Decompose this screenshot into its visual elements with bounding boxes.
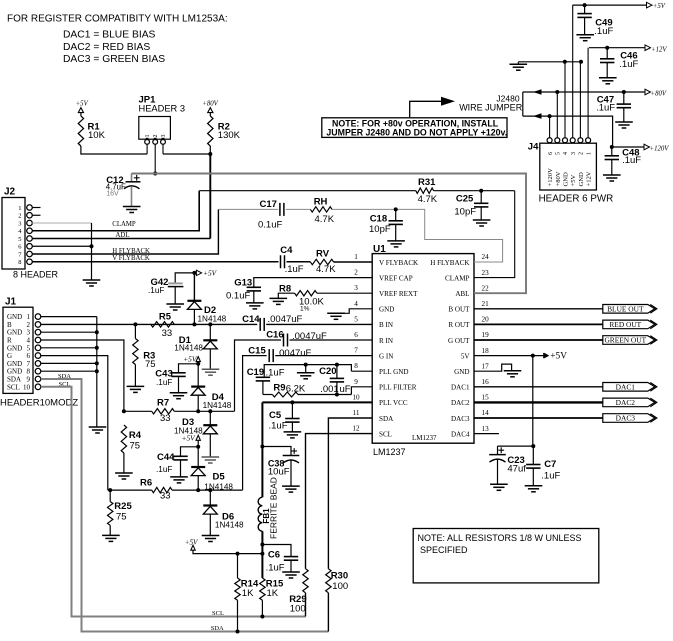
svg-text:33: 33 (160, 413, 171, 424)
svg-text:.1uF: .1uF (619, 59, 638, 70)
svg-text:+80V: +80V (651, 91, 667, 98)
svg-text:+12V: +12V (651, 47, 667, 54)
svg-text:10K: 10K (88, 130, 106, 141)
svg-text:10uF: 10uF (268, 467, 290, 478)
svg-text:3: 3 (571, 152, 577, 155)
svg-text:15: 15 (482, 394, 490, 402)
svg-text:G OUT: G OUT (448, 337, 470, 345)
svg-text:JUMPER J2480 AND DO NOT APPLY: JUMPER J2480 AND DO NOT APPLY +120v. (326, 128, 507, 138)
svg-text:2: 2 (354, 269, 358, 277)
svg-text:SCL: SCL (379, 430, 392, 438)
svg-text:19: 19 (482, 331, 490, 339)
svg-text:R5: R5 (159, 312, 172, 323)
svg-text:+5V: +5V (653, 3, 666, 10)
svg-text:CLAMP: CLAMP (112, 221, 136, 228)
svg-text:17: 17 (482, 362, 490, 370)
svg-text:CLAMP: CLAMP (445, 274, 469, 282)
svg-text:20: 20 (482, 316, 490, 324)
svg-text:J2: J2 (4, 187, 16, 198)
svg-text:SPECIFIED: SPECIFIED (420, 545, 468, 555)
svg-text:R7: R7 (157, 397, 169, 408)
svg-text:1: 1 (354, 253, 358, 261)
svg-text:1N4148: 1N4148 (215, 521, 244, 530)
svg-text:6: 6 (27, 352, 31, 360)
svg-text:.001: .001 (320, 384, 339, 395)
svg-text:12: 12 (352, 425, 360, 433)
svg-text:D5: D5 (213, 471, 226, 482)
svg-text:33: 33 (160, 491, 171, 502)
svg-text:+5V: +5V (182, 434, 197, 443)
svg-text:0.1uF: 0.1uF (226, 291, 250, 302)
svg-text:G IN: G IN (379, 352, 393, 360)
svg-text:SDA: SDA (7, 376, 21, 384)
svg-text:NOTE: ALL RESISTORS 1/8 W UNL: NOTE: ALL RESISTORS 1/8 W UNLESS (418, 533, 582, 543)
svg-text:3: 3 (18, 220, 21, 227)
svg-text:4.7K: 4.7K (316, 264, 336, 275)
svg-text:R25: R25 (114, 501, 132, 512)
svg-text:R6: R6 (140, 477, 152, 488)
svg-text:BLUE OUT: BLUE OUT (607, 304, 644, 313)
svg-text:GREEN OUT: GREEN OUT (604, 336, 646, 345)
svg-text:SCL: SCL (7, 383, 20, 391)
svg-text:.1uF: .1uF (622, 155, 641, 166)
svg-text:PLL VCC: PLL VCC (379, 399, 408, 407)
svg-text:C25: C25 (456, 194, 474, 205)
svg-text:.1uF: .1uF (266, 367, 285, 378)
svg-text:.1uF: .1uF (596, 103, 615, 114)
svg-text:22: 22 (482, 284, 490, 292)
svg-text:DAC1: DAC1 (616, 382, 636, 391)
svg-text:+5V: +5V (550, 352, 567, 362)
svg-text:H FLYBACK: H FLYBACK (430, 259, 470, 267)
svg-text:2: 2 (18, 213, 21, 220)
svg-text:.1uF: .1uF (269, 421, 288, 432)
svg-text:R8: R8 (279, 283, 291, 294)
svg-text:C4: C4 (280, 245, 293, 256)
svg-text:6: 6 (548, 152, 554, 155)
svg-text:21: 21 (482, 300, 490, 308)
svg-text:G13: G13 (234, 277, 252, 288)
svg-text:4.7K: 4.7K (315, 214, 335, 225)
svg-text:FERRITE BEAD: FERRITE BEAD (268, 477, 278, 539)
svg-text:SDA: SDA (379, 415, 394, 423)
svg-text:+5V: +5V (76, 101, 89, 108)
svg-text:HEADER 6 PWR: HEADER 6 PWR (539, 194, 614, 205)
svg-text:1N4148: 1N4148 (203, 401, 232, 410)
svg-text:8: 8 (18, 259, 21, 266)
svg-text:V FLYBACK: V FLYBACK (379, 259, 419, 267)
svg-text:DAC3: DAC3 (451, 415, 470, 423)
svg-text:FOR REGISTER COMPATIBITY WITH: FOR REGISTER COMPATIBITY WITH LM1253A: (7, 13, 228, 24)
svg-text:R9: R9 (273, 383, 285, 394)
svg-text:R31: R31 (418, 177, 436, 188)
svg-text:DAC2: DAC2 (616, 398, 636, 407)
svg-text:+80V: +80V (202, 101, 218, 108)
svg-text:23: 23 (482, 269, 490, 277)
svg-text:R OUT: R OUT (448, 321, 470, 329)
svg-text:1N4148: 1N4148 (198, 314, 227, 323)
svg-text:100: 100 (332, 581, 348, 592)
svg-text:B OUT: B OUT (448, 306, 470, 314)
svg-text:.1uF: .1uF (285, 264, 304, 275)
svg-text:75: 75 (130, 441, 141, 452)
svg-text:C19: C19 (247, 367, 264, 378)
svg-text:2: 2 (27, 321, 31, 329)
svg-text:DAC3 = GREEN BIAS: DAC3 = GREEN BIAS (63, 54, 165, 65)
svg-text:0.1uF: 0.1uF (258, 219, 282, 230)
svg-text:DAC1 = BLUE BIAS: DAC1 = BLUE BIAS (63, 30, 156, 41)
svg-text:16V: 16V (106, 190, 119, 197)
svg-text:.1uF: .1uF (266, 562, 285, 573)
svg-text:7: 7 (354, 347, 358, 355)
svg-text:HEADER10MODZ: HEADER10MODZ (0, 397, 78, 408)
svg-text:6: 6 (354, 331, 358, 339)
svg-text:8: 8 (354, 362, 358, 370)
svg-text:5V: 5V (461, 352, 471, 360)
svg-text:LM1237: LM1237 (373, 447, 406, 457)
svg-text:GND: GND (7, 313, 22, 321)
svg-text:9: 9 (27, 376, 31, 384)
svg-text:DAC1: DAC1 (451, 384, 470, 392)
svg-text:+120V: +120V (547, 168, 554, 187)
svg-text:DAC2: DAC2 (451, 399, 470, 407)
svg-text:+5V: +5V (203, 269, 218, 278)
svg-text:.1uF: .1uF (156, 378, 172, 387)
svg-text:4: 4 (27, 337, 31, 345)
svg-text:GND: GND (7, 344, 22, 352)
svg-text:+80V: +80V (555, 171, 562, 186)
svg-text:LM1237: LM1237 (412, 434, 437, 442)
svg-text:.1uF: .1uF (594, 26, 613, 37)
svg-text:J1: J1 (5, 297, 17, 308)
svg-text:10pF: 10pF (369, 224, 391, 235)
svg-text:3: 3 (354, 284, 358, 292)
svg-text:.1uF: .1uF (148, 286, 164, 295)
svg-text:5: 5 (27, 344, 31, 352)
svg-text:3: 3 (161, 135, 167, 138)
svg-text:C7: C7 (544, 459, 556, 470)
svg-text:+12V: +12V (586, 171, 593, 186)
svg-text:B: B (7, 321, 12, 329)
svg-text:14: 14 (482, 409, 490, 417)
svg-text:.1uF: .1uF (541, 470, 560, 481)
svg-text:75: 75 (145, 359, 156, 370)
svg-text:RV: RV (316, 249, 330, 260)
svg-text:4.7K: 4.7K (418, 194, 438, 205)
svg-text:HEADER 3: HEADER 3 (139, 104, 186, 114)
svg-text:uF: uF (340, 384, 351, 395)
svg-text:SCL: SCL (212, 610, 224, 617)
svg-text:RH: RH (314, 197, 328, 208)
svg-text:C5: C5 (269, 410, 282, 421)
svg-text:SDA: SDA (211, 625, 224, 632)
svg-text:R4: R4 (129, 430, 142, 441)
svg-text:9: 9 (354, 378, 358, 386)
svg-text:C15: C15 (248, 346, 266, 357)
svg-text:2: 2 (579, 152, 585, 155)
svg-text:ABL: ABL (455, 290, 469, 298)
svg-text:VREF CAP: VREF CAP (379, 274, 413, 282)
svg-text:U1: U1 (373, 244, 386, 255)
svg-text:10pF: 10pF (454, 206, 476, 217)
svg-text:5: 5 (556, 152, 562, 155)
svg-text:GND: GND (379, 306, 394, 314)
svg-text:10: 10 (23, 383, 31, 391)
svg-text:WIRE JUMPER: WIRE JUMPER (459, 103, 523, 113)
svg-text:C20: C20 (319, 366, 336, 377)
svg-text:5: 5 (18, 236, 21, 243)
svg-text:G: G (7, 352, 12, 360)
svg-text:GND: GND (7, 329, 22, 337)
svg-text:GND: GND (7, 360, 22, 368)
svg-text:24: 24 (482, 253, 490, 261)
svg-text:1N4148: 1N4148 (174, 343, 203, 352)
svg-text:33: 33 (162, 328, 173, 339)
svg-text:75: 75 (116, 512, 127, 523)
svg-text:J4: J4 (528, 142, 539, 153)
svg-text:1K: 1K (267, 588, 279, 599)
svg-text:16: 16 (482, 378, 490, 386)
svg-text:1N4148: 1N4148 (204, 482, 233, 491)
svg-text:1: 1 (586, 152, 592, 155)
svg-text:+120V: +120V (650, 146, 670, 153)
svg-text:100: 100 (290, 604, 306, 615)
svg-text:4: 4 (354, 300, 358, 308)
svg-text:.0047uF: .0047uF (292, 331, 327, 342)
svg-text:8 HEADER: 8 HEADER (13, 269, 59, 279)
svg-text:+5V: +5V (185, 539, 199, 547)
svg-text:.1uF: .1uF (156, 465, 172, 474)
svg-text:1: 1 (27, 313, 31, 321)
svg-text:5: 5 (354, 315, 358, 323)
svg-text:4: 4 (563, 152, 569, 155)
svg-text:1: 1 (18, 205, 21, 212)
svg-text:DAC4: DAC4 (451, 430, 470, 438)
svg-text:R: R (7, 337, 12, 345)
svg-text:11: 11 (353, 409, 360, 417)
svg-text:3: 3 (27, 329, 31, 337)
svg-text:B IN: B IN (379, 321, 393, 329)
svg-text:PLL GND: PLL GND (379, 368, 409, 376)
svg-text:GND: GND (7, 368, 22, 376)
svg-text:6.2K: 6.2K (286, 384, 306, 395)
svg-text:1: 1 (145, 135, 151, 138)
svg-text:1%: 1% (300, 305, 310, 312)
svg-text:8: 8 (27, 368, 31, 376)
svg-text:GND: GND (563, 172, 570, 187)
svg-text:PLL FILTER: PLL FILTER (379, 384, 417, 392)
svg-text:47uf: 47uf (507, 464, 526, 475)
svg-text:VREF REXT: VREF REXT (379, 290, 418, 298)
svg-text:C44: C44 (157, 452, 175, 463)
svg-text:18: 18 (482, 347, 490, 355)
svg-text:2: 2 (153, 135, 159, 138)
svg-text:C6: C6 (268, 550, 280, 561)
svg-text:DAC2 = RED BIAS: DAC2 = RED BIAS (63, 42, 150, 53)
svg-text:DAC3: DAC3 (616, 414, 636, 423)
svg-text:RED OUT: RED OUT (609, 320, 641, 329)
svg-text:13: 13 (482, 425, 490, 433)
svg-text:GND: GND (454, 368, 469, 376)
svg-text:.0047uF: .0047uF (277, 348, 312, 359)
svg-text:C16: C16 (266, 329, 283, 340)
svg-text:10: 10 (352, 393, 360, 401)
svg-text:130K: 130K (218, 130, 241, 141)
svg-text:7: 7 (27, 360, 31, 368)
svg-text:1K: 1K (242, 588, 254, 599)
svg-text:+5V: +5V (570, 174, 577, 186)
svg-text:C14: C14 (242, 314, 260, 325)
svg-text:R IN: R IN (379, 337, 393, 345)
svg-text:C17: C17 (260, 199, 277, 210)
svg-text:.0047uF: .0047uF (268, 314, 303, 325)
svg-text:GND: GND (578, 172, 585, 187)
